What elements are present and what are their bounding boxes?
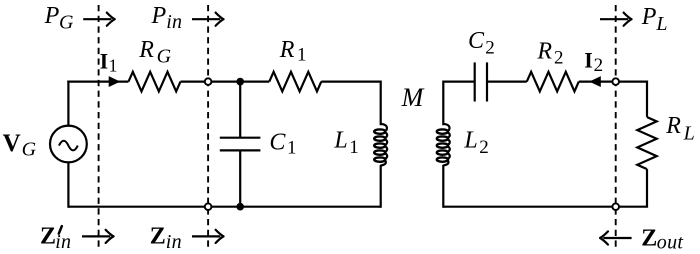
svg-text:M: M [401, 83, 425, 112]
label C_2 [468, 28, 495, 59]
dashed cut line at P_in / Z_in plane [207, 5, 209, 251]
svg-text:1: 1 [349, 137, 359, 158]
wire: C_1 branch upper [239, 82, 241, 138]
svg-text:in: in [166, 11, 182, 33]
svg-text:L: L [655, 13, 667, 35]
resistor R_G [129, 72, 181, 92]
inductor L_1 (coil of 5 loops) [374, 124, 387, 166]
svg-text:L: L [333, 127, 347, 153]
svg-text:V: V [3, 130, 21, 157]
svg-text:R: R [138, 37, 154, 63]
svg-text:L: L [683, 123, 695, 145]
svg-text:G: G [157, 45, 172, 67]
svg-text:out: out [657, 231, 684, 253]
open terminal node (P_L plane, top) [612, 78, 619, 85]
wire: bottom rail corner up to source bottom [67, 162, 69, 207]
svg-text:P: P [151, 3, 167, 29]
svg-text:2: 2 [479, 137, 489, 158]
label R_L [665, 113, 694, 144]
label I_1 [100, 49, 118, 76]
svg-text:1: 1 [297, 45, 307, 66]
svg-text:1: 1 [287, 138, 297, 159]
svg-text:I: I [584, 47, 593, 72]
resistor R_1 [269, 72, 321, 92]
wire: L_1 bottom to bottom rail corner [380, 165, 382, 208]
arrow for Z_in looking direction [192, 230, 224, 243]
node junction dot (bottom, C_1 tap) [236, 203, 244, 211]
arrow for P_in power flow [192, 13, 224, 26]
open terminal node (Z_in plane, bottom) [205, 203, 212, 210]
svg-text:2: 2 [485, 38, 495, 59]
label P_L [641, 4, 668, 35]
wire: R_L bottom to bottom-right corner, bottom rail back to L_2 [443, 169, 647, 207]
wire: source top to top rail corner [67, 81, 69, 126]
label P_in [151, 3, 183, 33]
current arrowhead I_2 (points left) [589, 76, 601, 87]
wire: top rail, corner to R_G [67, 80, 128, 82]
svg-text:P: P [44, 3, 60, 29]
svg-text:R: R [536, 38, 552, 64]
wire: C_1 branch lower [239, 151, 241, 207]
open terminal node (P_in plane, top) [205, 78, 212, 85]
wire: top-right corner down to R_L [646, 81, 648, 118]
label R_2 [536, 38, 563, 68]
open terminal node (Z_out plane, bottom) [612, 203, 619, 210]
inductor L_2 (coil of 5 loops) [437, 124, 450, 166]
label L_1 [333, 127, 358, 158]
label C_1 [269, 129, 296, 158]
svg-text:R: R [665, 113, 681, 139]
label Z_in [150, 223, 182, 253]
arrow for Z_out looking direction (points left) [600, 231, 632, 244]
svg-text:P: P [641, 4, 657, 30]
dashed cut line at P_L / Z_out plane [615, 5, 617, 251]
svg-text:1: 1 [109, 56, 118, 76]
svg-text:R: R [279, 37, 295, 63]
wire: R_G to R_1 (through P_in terminal and C_1 node) [181, 80, 270, 82]
svg-text:in: in [166, 231, 182, 253]
arrow for P_L power flow [600, 13, 632, 26]
wire: right loop top-left corner down to L_2 [443, 82, 474, 126]
svg-text:G: G [59, 12, 74, 34]
wire: R_1 to top-right corner of generator loop, down to L_1 [321, 82, 380, 126]
label P_G [44, 3, 74, 34]
svg-text:C: C [468, 28, 485, 54]
label R_G [138, 37, 171, 67]
svg-text:I: I [100, 49, 109, 74]
label Z'_in [40, 223, 71, 253]
svg-text:G: G [22, 138, 37, 160]
svg-text:Z: Z [40, 223, 56, 249]
svg-text:L: L [463, 127, 477, 153]
capacitor C_2 [475, 62, 487, 101]
arrow for P_G power flow [83, 13, 115, 26]
label R_1 [279, 37, 307, 66]
svg-text:Z: Z [641, 225, 657, 251]
node junction dot (top, C_1 tap) [236, 78, 244, 86]
arrow for Z'_in looking direction [82, 230, 114, 243]
svg-text:2: 2 [594, 55, 604, 76]
svg-text:in: in [55, 231, 71, 253]
label I_2 [584, 47, 603, 76]
label V_G [3, 130, 37, 161]
wire: C_2 to R_2 [487, 80, 527, 82]
svg-text:C: C [269, 129, 286, 155]
label L_2 [463, 127, 488, 158]
resistor R_L (vertical) [637, 117, 656, 169]
capacitor C_1 [220, 138, 261, 151]
current arrowhead I_1 (points right) [109, 76, 121, 87]
source V_G (AC sine source) [50, 126, 87, 163]
svg-text:Z: Z [150, 223, 166, 249]
label Z_out [641, 225, 683, 253]
wire: R_2 to top-right corner of load loop [579, 80, 647, 82]
resistor R_2 [527, 72, 579, 92]
svg-text:2: 2 [554, 47, 564, 68]
wire: L_2 bottom to bottom rail [442, 165, 444, 208]
dashed cut line at P_G / Z'_in plane [98, 5, 100, 251]
wire: bottom rail of generator loop [68, 206, 380, 208]
